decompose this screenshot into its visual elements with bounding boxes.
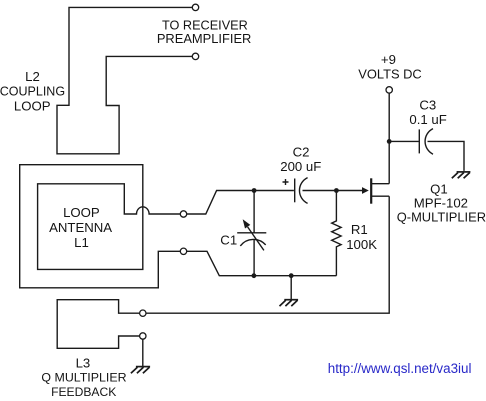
svg-text:L1: L1 <box>74 235 89 250</box>
feedback loop L3 <box>57 300 139 349</box>
wire: drain to supply node <box>388 141 390 183</box>
junction: C1 top tap <box>252 188 257 193</box>
junction: drain / C3 / +9V node <box>387 139 392 144</box>
transistor Q1 MPF-102 n-JFET <box>371 178 389 203</box>
terminal: L1 bottom tap <box>180 248 186 254</box>
junction: gate / R1 / C2 node <box>334 188 339 193</box>
svg-text:200 uF: 200 uF <box>280 159 321 174</box>
wire: C3 to ground <box>428 141 465 171</box>
wire: node down to C1 top plate <box>253 191 255 233</box>
wire: C2 to gate of Q1 <box>303 190 363 192</box>
ground (C3 return) <box>452 172 471 178</box>
label L3 Q MULTIPLIER FEEDBACK <box>41 355 126 399</box>
svg-text:ANTENNA: ANTENNA <box>49 220 112 235</box>
svg-text:Q1: Q1 <box>430 182 448 197</box>
svg-text:L3: L3 <box>76 355 91 370</box>
wire: node to C3 <box>389 140 419 142</box>
terminal: +9V supply <box>386 87 392 93</box>
svg-text:MPF-102: MPF-102 <box>414 196 468 211</box>
loop antenna L1 (two-turn spiral with crossover hop) <box>20 165 180 288</box>
svg-text:Q MULTIPLIER: Q MULTIPLIER <box>41 370 126 384</box>
wire: L3 bottom terminal to ground <box>142 339 144 366</box>
svg-text:Q-MULTIPLIER: Q-MULTIPLIER <box>397 209 486 224</box>
svg-text:LOOP: LOOP <box>63 205 100 220</box>
label LOOP ANTENNA L1 <box>49 205 112 250</box>
svg-text:VOLTS DC: VOLTS DC <box>358 67 422 82</box>
ground (L3 return) <box>131 367 150 374</box>
label C3 0.1 uF <box>409 97 446 127</box>
svg-text:PREAMPLIFIER: PREAMPLIFIER <box>157 31 252 46</box>
capacitor C2 (polarized) <box>283 178 308 204</box>
gate arrow of Q1 <box>362 187 369 194</box>
junction: ground stub on rail <box>289 273 294 278</box>
capacitor C1 (variable) <box>237 219 266 250</box>
terminal: to receiver (bottom) <box>192 53 198 59</box>
resistor R1 <box>332 191 341 276</box>
wire: C1 bottom to ground rail <box>253 240 255 276</box>
svg-text:COUPLING: COUPLING <box>0 85 65 99</box>
svg-text:+9: +9 <box>381 52 396 67</box>
terminal: L3 top <box>140 310 146 316</box>
label TO RECEIVER PREAMPLIFIER <box>157 18 252 46</box>
label R1 100K <box>346 222 377 252</box>
wire: node up to +9V terminal <box>388 93 390 141</box>
svg-text:C3: C3 <box>419 97 436 112</box>
ground (tank circuit) <box>280 300 299 306</box>
svg-text:http://www.qsl.net/va3iul: http://www.qsl.net/va3iul <box>328 361 472 376</box>
terminal: L3 bottom <box>140 333 146 339</box>
svg-text:L2: L2 <box>25 69 40 84</box>
wire: source of Q1 down and across to L3 <box>146 196 389 313</box>
svg-text:100K: 100K <box>346 237 377 252</box>
svg-text:FEEDBACK: FEEDBACK <box>51 385 116 399</box>
label Q1 MPF-102 Q-MULTIPLIER <box>397 182 486 225</box>
terminal: to receiver (top) <box>192 4 198 10</box>
svg-text:C2: C2 <box>293 144 310 159</box>
coupling loop L2 <box>57 7 192 153</box>
wire: L1 bottom tap to ground rail <box>187 251 337 275</box>
junction: C1 bottom on rail <box>252 273 257 278</box>
label +9 VOLTS DC <box>358 52 422 82</box>
svg-text:LOOP: LOOP <box>14 98 51 113</box>
svg-text:C1: C1 <box>220 233 237 248</box>
svg-text:0.1 uF: 0.1 uF <box>409 112 446 127</box>
wire: L1 top tap to C2 <box>187 191 294 215</box>
label C2 200 uF <box>280 144 321 174</box>
label L2 COUPLING LOOP <box>0 69 65 113</box>
svg-text:R1: R1 <box>351 222 368 237</box>
terminal: L1 top tap <box>180 211 186 217</box>
capacitor C3 <box>419 129 433 155</box>
wire: rail to ground <box>290 276 292 300</box>
